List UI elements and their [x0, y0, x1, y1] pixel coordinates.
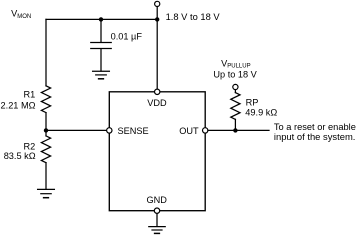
svg-text:GND: GND: [147, 195, 168, 205]
svg-text:R2: R2: [24, 142, 36, 152]
wire left vertical down to R1: [45, 19, 47, 85]
pin SENSE: [107, 128, 112, 133]
svg-text:R1: R1: [24, 90, 36, 100]
terminal VPULLUP: [233, 84, 238, 89]
svg-text:0.01 µF: 0.01 µF: [111, 32, 143, 42]
resistor R2: [45, 130, 47, 136]
op-amp U1 supervisor IC body: [109, 92, 205, 211]
svg-text:2.21 MΩ: 2.21 MΩ: [1, 100, 36, 110]
pin VDD: [155, 89, 160, 94]
svg-text:VMON: VMON: [11, 9, 31, 20]
svg-text:83.5 kΩ: 83.5 kΩ: [4, 151, 36, 161]
node junction VDD branch: [155, 17, 159, 21]
wire GND pin to ground: [156, 214, 158, 227]
svg-text:VPULLUP: VPULLUP: [221, 58, 250, 69]
power terminal 1.8 V to 18 V: [155, 1, 160, 6]
ground below capacitor: [93, 71, 110, 79]
svg-text:1.8 V to 18 V: 1.8 V to 18 V: [166, 12, 221, 22]
svg-text:Up to 18 V: Up to 18 V: [213, 69, 257, 79]
wire R1 to node: [45, 113, 47, 131]
svg-text:49.9 kΩ: 49.9 kΩ: [245, 108, 277, 118]
wire R2 to ground: [45, 163, 47, 190]
svg-text:To a reset or enable: To a reset or enable: [274, 122, 356, 132]
wire OUT to system note: [208, 129, 269, 131]
ground below R2: [38, 189, 55, 197]
resistor R1: [41, 86, 50, 113]
node junction capacitor tap: [99, 17, 103, 21]
pin GND: [154, 208, 159, 213]
svg-text:input of the system.: input of the system.: [274, 132, 356, 142]
capacitor C1 0.01 uF: [91, 19, 143, 71]
wire node to SENSE pin: [46, 129, 107, 131]
wire top horizontal from VMON corner to VDD branch: [46, 18, 157, 20]
svg-text:RP: RP: [246, 98, 259, 108]
svg-text:SENSE: SENSE: [118, 126, 149, 136]
node junction OUT/RP: [233, 128, 237, 132]
pin OUT: [203, 128, 208, 133]
node junction R1/R2/SENSE: [44, 128, 48, 132]
svg-text:OUT: OUT: [179, 126, 199, 136]
resistor RP: [231, 90, 278, 131]
wire terminal down to VDD pin: [156, 7, 158, 89]
svg-text:VDD: VDD: [147, 98, 167, 108]
ground below GND pin: [149, 227, 165, 234]
